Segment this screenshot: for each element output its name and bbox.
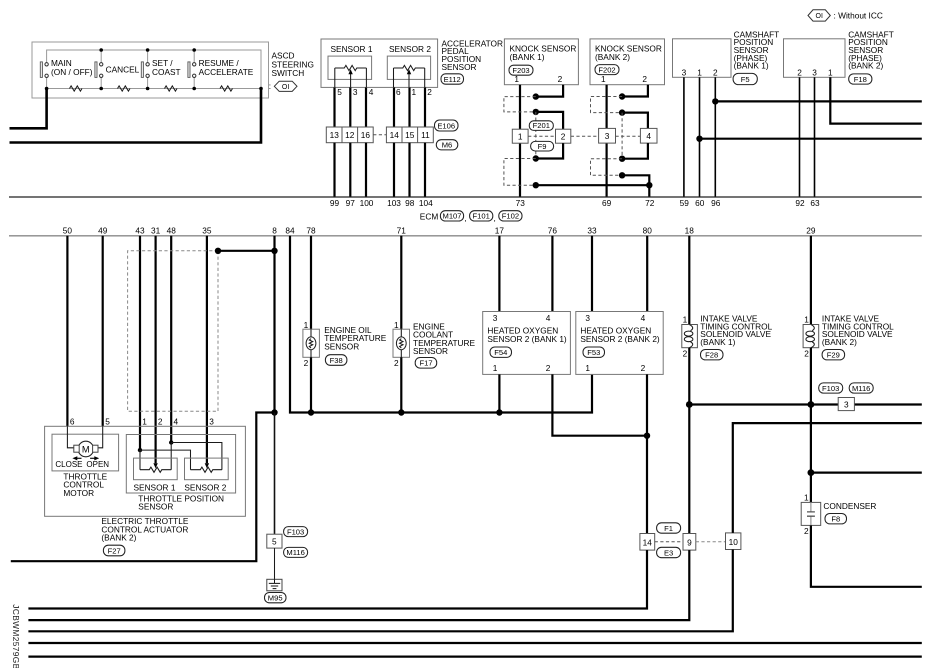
svg-text:1: 1 [304, 320, 309, 330]
svg-text:1: 1 [828, 67, 833, 77]
svg-text:F29: F29 [827, 351, 840, 360]
connector box 9 [683, 534, 696, 551]
junction dot cam1 pin2 branch [712, 98, 718, 104]
svg-text:(ON / OFF): (ON / OFF) [51, 67, 93, 77]
wire cam2 pin2 to ECM 92 [799, 77, 801, 196]
pin 3 label (cam1) [682, 67, 687, 77]
connector label F9 [531, 141, 554, 151]
svg-text:F1: F1 [664, 524, 673, 533]
svg-text:14: 14 [643, 537, 653, 547]
svg-text:16: 16 [361, 130, 371, 140]
wire knock2 pin2 to shield node [622, 85, 648, 97]
wire knock2 shield to ground bus [622, 175, 649, 196]
label ENGINE COOLANT TEMPERATURE SENSOR [413, 322, 476, 356]
svg-text:CLOSE: CLOSE [55, 460, 82, 469]
svg-text:2: 2 [713, 67, 718, 77]
wire ECM 78 to oil temp sensor [310, 236, 312, 329]
wire TPS pin4 node to both track rights [171, 443, 222, 470]
svg-text:M116: M116 [852, 384, 870, 393]
pin 2 label (knock1) [558, 74, 563, 84]
svg-text:12: 12 [345, 130, 355, 140]
label INTAKE VALVE TIMING CONTROL SOLENOID VALVE (BANK 1) [700, 314, 772, 347]
svg-text:9: 9 [687, 537, 692, 547]
ASCD inner circuit frame [47, 50, 261, 89]
ECM pin 100 label [360, 198, 374, 208]
svg-text:MOTOR: MOTOR [63, 488, 94, 498]
svg-text:F103: F103 [287, 527, 304, 536]
connector label F28 [701, 350, 724, 360]
svg-text:(BANK 1): (BANK 1) [510, 52, 545, 62]
APP sensor 2 inner box [387, 56, 430, 79]
svg-text:78: 78 [306, 225, 316, 235]
wire solenoid bank1 to valve ground node [688, 348, 690, 534]
svg-text:SENSOR: SENSOR [442, 62, 477, 72]
ECM pin 50 label [63, 225, 73, 235]
svg-text:4: 4 [641, 313, 646, 323]
svg-text:31: 31 [151, 225, 161, 235]
svg-text:3: 3 [209, 417, 214, 427]
junction dot ground branch node (pin 8 net) [271, 409, 277, 415]
wire ASCD right drop to page edge [10, 89, 262, 143]
ECM pin 92 label [795, 198, 805, 208]
wire APP pin3 to connector 12 [349, 87, 351, 127]
pin 2 label (condenser) [804, 526, 809, 536]
APP sensor outer box [321, 39, 438, 87]
ground connector label M95 [265, 593, 287, 603]
label ELECTRIC THROTTLE CONTROL ACTUATOR (BANK 2) [101, 516, 188, 542]
svg-text:M6: M6 [442, 141, 453, 150]
dashed link connector 1 to 2 [528, 135, 555, 137]
camshaft sensor bank1 box [673, 39, 732, 78]
pin 3 label (TPS) [209, 417, 214, 427]
dashed link connector 2 to 3 [571, 135, 599, 137]
pin 5 label (actuator) [105, 417, 110, 427]
svg-text:72: 72 [645, 198, 655, 208]
junction shield top dot (knock2) [619, 93, 625, 99]
pin 2 label (solenoid bank2) [804, 349, 809, 359]
ECM pin 63 label [810, 198, 820, 208]
svg-text:(BANK 1): (BANK 1) [734, 61, 769, 71]
svg-text:3: 3 [493, 313, 498, 323]
svg-text:6: 6 [396, 87, 401, 97]
svg-text:71: 71 [397, 225, 407, 235]
svg-text:1: 1 [142, 417, 147, 427]
wire ECM 80 to HO2S2 pin 4 [646, 236, 648, 312]
resistor R1 on ASCD bottom rail [70, 86, 83, 91]
wire connector 14 to ECM 103 [393, 143, 395, 197]
svg-text:17: 17 [495, 225, 505, 235]
svg-text:3: 3 [844, 400, 849, 410]
wire shield drain to ECM 8 column [218, 250, 275, 252]
capacitor symbol (condenser) [807, 502, 815, 525]
pin 2 label (oil temp) [304, 358, 309, 368]
wire APP pin1 to connector 15 [408, 87, 410, 127]
svg-text:CANCEL: CANCEL [106, 65, 140, 75]
junction dot condenser supply branch [808, 469, 815, 476]
pin 3 label (cam2) [812, 67, 817, 77]
pin 2 label (TPS) [158, 417, 163, 427]
junction dot shield drain (TPS) [215, 248, 221, 254]
svg-text:F53: F53 [587, 348, 600, 357]
svg-text:SENSOR 2 (BANK 2): SENSOR 2 (BANK 2) [580, 334, 660, 344]
wire from page right through connector 10 [28, 423, 921, 631]
junction dot oil temp at ground bus [308, 409, 314, 415]
switch SW4 RESUME/ACCELERATE column wire [193, 50, 195, 89]
svg-text:5: 5 [337, 87, 342, 97]
svg-text:E112: E112 [444, 75, 461, 84]
svg-text:(BANK 2): (BANK 2) [101, 533, 136, 543]
ECM pin 71 label [397, 225, 407, 235]
dashed link connector 14 to 9 [655, 541, 683, 543]
wire knock1 pin2 to shield node [536, 85, 563, 97]
svg-text:M95: M95 [268, 594, 283, 603]
ECM pin 17 label [495, 225, 505, 235]
resistor R4 on ASCD bottom rail [220, 86, 233, 91]
svg-text:97: 97 [346, 198, 356, 208]
connector label F17 [415, 358, 437, 369]
svg-text:F54: F54 [494, 348, 507, 357]
label KNOCK SENSOR (BANK 1) [510, 43, 577, 62]
svg-text:1: 1 [493, 363, 498, 373]
svg-text:OPEN: OPEN [86, 460, 109, 469]
wire knock2 pin1 to ECM 69 [605, 85, 607, 197]
label ACCELERATOR PEDAL POSITION SENSOR [442, 38, 503, 72]
potentiometer APP sensor 1 wiper arrow [348, 69, 352, 78]
potentiometer APP sensor 2 track [394, 65, 425, 70]
connector label E112 [441, 74, 464, 84]
svg-text:48: 48 [167, 225, 177, 235]
motor M1 circle [78, 441, 94, 457]
svg-text:OI: OI [282, 84, 289, 91]
pin 4 label (HO2S2) [641, 313, 646, 323]
pin 1 label (HO2S2) [585, 363, 590, 373]
svg-text:14: 14 [390, 130, 400, 140]
svg-text:F101: F101 [473, 212, 490, 221]
connector label F54 [490, 347, 512, 357]
wire pin 8 net to connector 5 [274, 413, 276, 535]
svg-text:63: 63 [810, 198, 820, 208]
wire connector 2 to shield node lower (knock1) [536, 143, 563, 158]
shield dashed drop through connector (knock2) [621, 113, 623, 159]
junction dots ASCD bottom rail [45, 87, 263, 91]
svg-text:JCBWM2579GB: JCBWM2579GB [11, 604, 21, 668]
wire ECM 18 to solenoid bank1 [688, 236, 690, 325]
switch SW2 CANCEL column wire [100, 50, 102, 89]
junction dot coolant temp at ground bus [398, 409, 404, 415]
label CANCEL [106, 65, 140, 75]
svg-text:2: 2 [683, 349, 688, 359]
svg-text:2: 2 [427, 87, 432, 97]
connector box 14 [640, 534, 655, 551]
svg-text:4: 4 [646, 131, 651, 141]
junction dot shield lower block top (knock2) [619, 156, 625, 162]
wire ECM 17 to HO2S1 pin 3 [498, 236, 500, 312]
label SENSOR 1 (APP) [331, 44, 373, 54]
junction dots ASCD top rail [99, 48, 196, 52]
switch SW2 contacts [100, 63, 103, 78]
heated oxygen sensor bank1 box [483, 312, 571, 375]
potentiometer APP sensor 1 legs [335, 68, 367, 87]
svg-text:F5: F5 [741, 75, 750, 84]
shield dashed box knock2 lower [591, 159, 623, 176]
ECM pin 99 label [330, 198, 340, 208]
label SENSOR 1 (TPS) [134, 483, 176, 493]
connector box 3 (rail) [838, 398, 854, 411]
wire ECM 33 to HO2S2 pin 3 [591, 236, 593, 312]
ECM pin 49 label [98, 225, 108, 235]
svg-text:F103: F103 [822, 384, 839, 393]
junction shield top dot (knock1) [533, 93, 539, 99]
svg-text:73: 73 [516, 198, 526, 208]
legend symbol OI : Without ICC [808, 10, 883, 21]
wire condenser branch to page right [811, 472, 922, 474]
pin 3 label (HO2S1) [493, 313, 498, 323]
connector label F8 [825, 514, 847, 524]
wire ECM 71 to coolant temp sensor [400, 236, 402, 329]
wire HO2S1 pin1 to ground bus [498, 374, 500, 412]
ECM pin 35 label [202, 225, 212, 235]
pin 2 label (coolant temp) [394, 358, 399, 368]
shield dashed box around TPS wires [128, 251, 218, 411]
svg-text:F27: F27 [108, 546, 121, 555]
shield dashed box knock1 lower [504, 159, 536, 186]
coil symbol (solenoid bank2) [806, 325, 815, 348]
wire ECM 31 to TPS pin 2 [155, 236, 157, 463]
svg-text:ACCELERATE: ACCELERATE [199, 67, 254, 77]
wire knock1 pin1 to ECM 73 [519, 85, 521, 197]
pin 1 label (solenoid bank2) [804, 315, 809, 325]
junction dot solenoid bank1 return [686, 401, 693, 408]
connector label E106 [435, 120, 459, 131]
svg-text:35: 35 [202, 225, 212, 235]
connector label F202 [595, 65, 619, 75]
connector label M6 [436, 140, 458, 150]
svg-text:SWITCH: SWITCH [272, 68, 305, 78]
switch SW2 CANCEL actuator bar [95, 62, 97, 78]
ECM pin 18 label [685, 225, 695, 235]
connector label F103 [284, 527, 308, 537]
junction dot shield ground (knock2) [619, 172, 625, 178]
svg-text::: : [269, 81, 271, 91]
pin 3 label (HO2S2) [585, 313, 590, 323]
wire HO2S2 pin2 to connector 14 via junction [646, 374, 648, 533]
wire cam1 pin3 to ECM 59 [683, 77, 685, 196]
wire connector 16 to ECM 100 [365, 143, 367, 197]
connector label E3 [657, 547, 681, 557]
svg-text:F18: F18 [854, 75, 867, 84]
label CLOSE OPEN [55, 460, 109, 469]
ECM pin 96 label [711, 198, 721, 208]
connector label F1 [657, 523, 681, 533]
svg-text:80: 80 [643, 225, 653, 235]
connector box 3 (knock2) [599, 128, 616, 143]
switch SW1 contacts [45, 63, 48, 78]
svg-text:5: 5 [105, 417, 110, 427]
thermistor symbol (oil temp) [306, 329, 316, 357]
connector label F38 [325, 355, 347, 366]
ECM pin 103 label [387, 198, 401, 208]
wire page-wide bus A [28, 642, 921, 644]
connector box 2 (knock1) [556, 129, 571, 143]
motor M1 letter [82, 444, 90, 454]
connector label F18 [849, 74, 872, 84]
wire APP pin6 to connector 14 [393, 87, 395, 127]
label ENGINE OIL TEMPERATURE SENSOR [324, 325, 387, 351]
dashed link connector 3 to 4 [616, 135, 641, 137]
pin 4 label (TPS) [174, 417, 179, 427]
motor close arrow [72, 456, 81, 460]
throttle control motor sub-box [52, 434, 119, 471]
svg-text:E106: E106 [437, 121, 455, 130]
svg-text:1: 1 [697, 67, 702, 77]
ECM pin 84 label [285, 225, 295, 235]
svg-text:(BANK 1): (BANK 1) [700, 337, 735, 347]
wire page-wide bus B [28, 655, 921, 657]
svg-text:99: 99 [330, 198, 340, 208]
svg-text:69: 69 [602, 198, 612, 208]
svg-text:1: 1 [394, 320, 399, 330]
svg-text:M116: M116 [286, 548, 304, 557]
resistor R2 on ASCD bottom rail [118, 86, 131, 91]
wire valve ground rail to page right [689, 403, 922, 405]
svg-text:2: 2 [546, 363, 551, 373]
connector label F27 [103, 545, 125, 556]
dashed link connector 9 to 10 [696, 541, 726, 543]
pin 3 label (APP) [353, 87, 358, 97]
junction shield lower dot (knock2) [619, 109, 625, 115]
ECM upper boundary line [9, 196, 922, 198]
wire shield node to connector 4 (knock2) [622, 113, 648, 129]
potentiometer TPS sensor1 wiper arrow [153, 463, 157, 468]
pin 1 label (knock1) [514, 74, 519, 84]
svg-text:4: 4 [174, 417, 179, 427]
svg-text:1: 1 [412, 87, 417, 97]
connector label F103 (rail) [819, 383, 843, 393]
svg-text:3: 3 [812, 67, 817, 77]
knock sensor bank1 box [504, 39, 578, 85]
svg-text:SENSOR: SENSOR [138, 502, 173, 512]
switch SW3 SET/COAST column wire [147, 50, 149, 89]
wire HO2S1 pin2 heater return [552, 374, 647, 435]
wire ECM 49 to actuator pin 5 [102, 236, 104, 426]
shield dashed box knock2 upper [591, 97, 623, 113]
comma separator [494, 213, 496, 223]
ECM pin 97 label [346, 198, 356, 208]
pin 5 label (APP) [337, 87, 342, 97]
actuator outer box [45, 426, 246, 516]
svg-text:3: 3 [585, 313, 590, 323]
pin 4 label (APP) [369, 87, 374, 97]
connector label F5 [733, 73, 757, 84]
ECM pin 31 label [151, 225, 161, 235]
wire solenoid bank2 to condenser [810, 348, 812, 503]
pin 1 label (HO2S1) [493, 363, 498, 373]
junction dot HO2S heater returns [644, 433, 650, 439]
connector box 5 (F103/M116) [267, 534, 282, 548]
wire ECM 48 to TPS pin 4 [170, 236, 172, 443]
junction dot cam1 pin1 branch [696, 136, 702, 142]
pin 1 label (solenoid bank1) [683, 315, 688, 325]
wire APP pin4 to connector 16 [365, 87, 367, 127]
ECM pin 73 label [516, 198, 526, 208]
svg-text:4: 4 [546, 313, 551, 323]
svg-text:98: 98 [405, 198, 415, 208]
pin 2 label (solenoid bank1) [683, 349, 688, 359]
wire ECM 43 to TPS pin 1 [139, 236, 141, 450]
connector label F53 [583, 347, 605, 357]
svg-text:F9: F9 [538, 142, 547, 151]
svg-text:(BANK 2): (BANK 2) [848, 61, 883, 71]
wire cam2 pin1 to page right [830, 77, 922, 123]
svg-text:(BANK 2): (BANK 2) [595, 52, 630, 62]
junction dot HO2S1 pin1 at ground bus [496, 409, 502, 415]
svg-text:4: 4 [369, 87, 374, 97]
svg-text:2: 2 [642, 74, 647, 84]
connector label F203 [509, 65, 533, 75]
ECM pin 80 label [643, 225, 653, 235]
ECM pin 69 label [602, 198, 612, 208]
svg-text:6: 6 [70, 417, 75, 427]
svg-text:84: 84 [285, 225, 295, 235]
wire TPS pin1 node to both track lefts [140, 450, 191, 470]
pin 1 label (cam2) [828, 67, 833, 77]
potentiometer TPS sensor2 track [191, 467, 222, 472]
label HEATED OXYGEN SENSOR 2 (BANK 1) [487, 325, 567, 344]
ECM pin 98 label [405, 198, 415, 208]
svg-text:3: 3 [353, 87, 358, 97]
wire cam2 pin3 to ECM 63 [814, 77, 816, 196]
connector label F29 [822, 350, 845, 360]
svg-text:104: 104 [419, 198, 433, 208]
svg-text:F17: F17 [419, 359, 432, 368]
pin 1 label (coolant temp) [394, 320, 399, 330]
svg-text:E3: E3 [664, 548, 673, 557]
svg-text:M107: M107 [443, 212, 462, 221]
pin 1 label (cam1) [697, 67, 702, 77]
svg-text:60: 60 [695, 198, 705, 208]
pin 4 label (HO2S1) [546, 313, 551, 323]
ASCD steering switch outer box [32, 42, 269, 98]
wire cam1 pin1 branch to page right [700, 138, 922, 140]
TPS sensor 1 pot box [134, 458, 178, 480]
svg-text:1: 1 [804, 493, 809, 503]
svg-text:: Without ICC: : Without ICC [834, 10, 883, 20]
motor open arrow [90, 456, 99, 460]
svg-text:1: 1 [585, 363, 590, 373]
wire connector 15 to ECM 98 [408, 143, 410, 197]
svg-text:M: M [82, 444, 90, 454]
shield dashed box knock1 upper [504, 97, 536, 112]
svg-text:,: , [494, 213, 496, 223]
label SENSOR 2 (APP) [389, 44, 431, 54]
wire condenser to page right [811, 525, 922, 586]
junction dot TPS pin4 node [169, 440, 173, 444]
potentiometer TPS sensor1 track [140, 467, 171, 472]
connector label F101 [470, 211, 493, 221]
pin 2 label (APP) [427, 87, 432, 97]
switch SW1 MAIN (ON/OFF) actuator bar [40, 62, 42, 78]
svg-text:13: 13 [330, 130, 340, 140]
connector label M116 [284, 547, 308, 557]
svg-text:1: 1 [683, 315, 688, 325]
svg-text:2: 2 [804, 349, 809, 359]
connector label F201 [529, 121, 553, 131]
wire ECM 8 down to ground branch node [273, 236, 275, 413]
svg-text:2: 2 [797, 67, 802, 77]
svg-text:2: 2 [558, 74, 563, 84]
svg-text:43: 43 [135, 225, 145, 235]
ECM lower boundary line [9, 235, 922, 237]
